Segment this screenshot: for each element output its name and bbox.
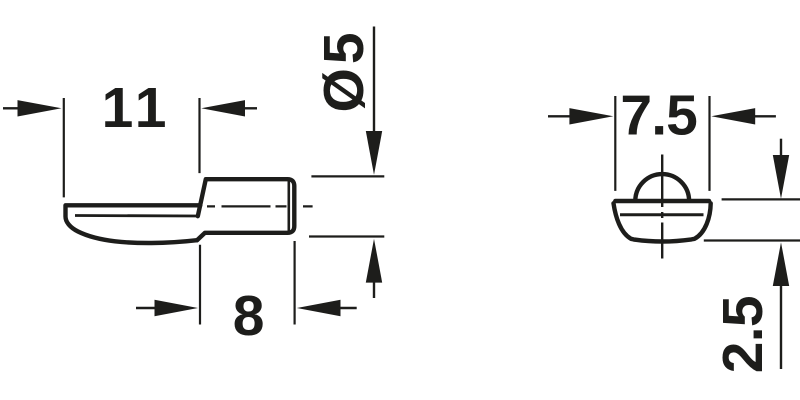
dimension 2.5: top extension line <box>722 198 800 200</box>
dimension 7.5: right extension line <box>708 96 710 191</box>
dimension 11: right arrow tail <box>244 107 258 109</box>
dimension 11: right extension line <box>198 98 200 173</box>
dimension Ø5: up arrowhead <box>366 239 382 283</box>
dimension Ø5: bottom extension line <box>309 235 384 237</box>
part: dome (front view ball) <box>635 174 689 201</box>
dimension 7.5: left arrow tail <box>548 115 571 117</box>
svg-text:2.5: 2.5 <box>711 296 775 373</box>
dimension 2.5: bottom extension line <box>704 239 800 241</box>
dimension 11: left arrowhead <box>18 100 62 116</box>
centerline of pin (dash-dot) <box>207 205 313 207</box>
dimension 8: right extension line <box>294 241 296 325</box>
svg-text:7.5: 7.5 <box>620 83 697 147</box>
dimension Ø5: vertical dimension line top <box>373 27 375 133</box>
dimension Ø5: down arrowhead <box>366 131 382 175</box>
part: rim line (front view) <box>615 199 709 204</box>
dimension 11: left extension line <box>63 98 65 197</box>
part: pin body outline (side view) <box>197 179 294 240</box>
svg-text:Ø5: Ø5 <box>312 28 376 112</box>
dimension 7.5: right arrow tail <box>754 115 776 117</box>
dimension 8: right arrow tail <box>339 307 357 309</box>
dimension 2.5: up arrowhead <box>773 242 789 286</box>
vertical centerline (front view, dash-dot) <box>661 155 663 259</box>
part: spoon inner edge line <box>75 214 199 217</box>
dimension 7.5: left extension line <box>614 96 616 191</box>
svg-text:11: 11 <box>102 76 171 140</box>
part: dish body outline (front view) <box>614 203 711 241</box>
dimension 2.5: down arrowhead <box>773 155 789 199</box>
dimension 2.5: bottom dimension line tail <box>780 285 782 370</box>
part: pin chamfer line <box>287 180 290 232</box>
dimension 11: right arrowhead <box>201 100 245 116</box>
dimension 8: left arrowhead <box>155 300 199 316</box>
dimension 7.5: left arrowhead <box>569 108 613 124</box>
dimension 2.5: top dimension line tail <box>780 139 782 157</box>
dimension 8: left arrow tail <box>136 307 157 309</box>
svg-text:8: 8 <box>233 284 265 348</box>
dimension Ø5: top extension line <box>311 175 384 177</box>
part: spoon outline (side view) <box>66 205 201 243</box>
dimension 8: right arrowhead <box>297 300 341 316</box>
dimension 7.5: right arrowhead <box>711 108 755 124</box>
dimension Ø5: vertical dimension line bottom tail <box>373 282 375 299</box>
dimension 8: left extension line <box>199 245 201 325</box>
dimension 11: left arrow tail <box>3 107 19 109</box>
part: inner rim line (front view) <box>620 213 704 216</box>
